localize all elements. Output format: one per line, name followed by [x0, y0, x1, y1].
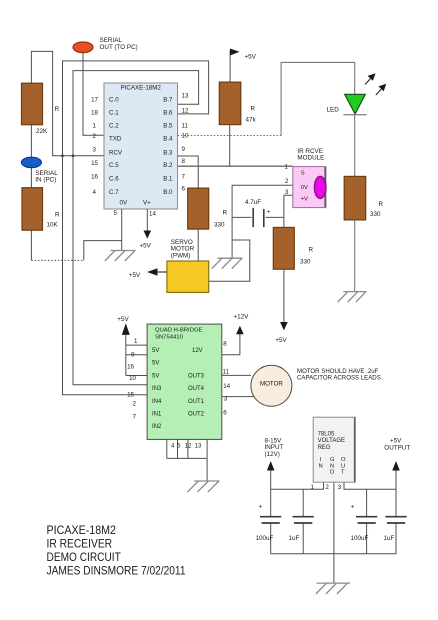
power arrow +5V (pin 14, pointing down) — [144, 231, 152, 239]
svg-text:+5V: +5V — [245, 54, 257, 61]
wire LED R330 to ground — [354, 220, 356, 292]
ground symbol (H-bridge) — [187, 481, 219, 492]
resistor R 22K — [22, 83, 43, 125]
svg-text:16: 16 — [91, 174, 98, 181]
svg-text:9: 9 — [182, 146, 186, 153]
svg-text:B.4: B.4 — [163, 135, 173, 142]
capacitor C5 1uF (output) plates — [385, 517, 406, 523]
IC U1 PICAXE-18M2 body — [104, 83, 178, 209]
junction dot on RCV net — [61, 154, 64, 157]
wire regulator GND pin 2 to ground — [333, 482, 335, 583]
svg-text:15: 15 — [91, 160, 98, 167]
svg-text:330: 330 — [214, 222, 225, 229]
svg-text:3: 3 — [93, 146, 97, 153]
IR receiver lens (magenta ellipse) — [315, 176, 326, 198]
svg-text:IN3: IN3 — [152, 386, 162, 392]
power arrow +5V (IR supply, pointing down) — [280, 322, 288, 330]
svg-text:R: R — [379, 201, 384, 208]
svg-text:TXD: TXD — [109, 135, 122, 142]
resistor R 10K — [22, 188, 43, 231]
svg-text:N: N — [330, 463, 334, 469]
svg-text:17: 17 — [91, 96, 98, 103]
junction dot on RCV net — [72, 154, 75, 157]
capacitor C1 4.7uF wires — [232, 216, 251, 218]
svg-text:0V: 0V — [301, 185, 308, 191]
wire 22K top to RCV pin 3 — [31, 51, 104, 155]
svg-text:B.6: B.6 — [163, 109, 173, 116]
svg-text:2: 2 — [325, 484, 329, 491]
svg-text:13: 13 — [182, 93, 189, 100]
wire 8-15V input rail — [270, 470, 272, 554]
wire serial ground return to 0V ground — [84, 241, 122, 261]
svg-text:10: 10 — [129, 375, 136, 382]
svg-text:LED: LED — [327, 107, 340, 114]
svg-text:PICAXE-18M2: PICAXE-18M2 — [47, 523, 117, 537]
svg-text:G: G — [330, 457, 335, 463]
svg-text:CAPACITOR ACROSS LEADS: CAPACITOR ACROSS LEADS — [297, 374, 381, 381]
svg-text:16: 16 — [127, 364, 134, 371]
svg-text:OUTPUT: OUTPUT — [384, 445, 410, 452]
svg-text:5: 5 — [114, 210, 118, 217]
wire LED cathode to R330 — [354, 115, 356, 177]
wire ground bus (regulator) — [271, 553, 396, 555]
wire +5V to H-bridge 5V pins 1,9,16 — [126, 335, 147, 376]
svg-text:2: 2 — [285, 178, 289, 185]
svg-text:REG: REG — [318, 445, 331, 451]
ground symbol (LED) — [338, 292, 367, 303]
svg-text:330: 330 — [300, 259, 311, 266]
svg-text:D: D — [330, 470, 334, 476]
svg-text:U: U — [341, 463, 345, 469]
svg-text:5: 5 — [177, 443, 181, 450]
wire IR module +V pin 3 to R330 — [284, 195, 293, 227]
svg-text:1: 1 — [311, 484, 315, 491]
svg-text:15: 15 — [127, 392, 134, 399]
power arrow 8-15V input (pointing up) — [267, 461, 275, 471]
capacitor C3 1uF (input) plates — [293, 517, 314, 523]
resistor R 330 (LED) — [344, 176, 366, 220]
pin name labels C.0 C.1 C.2 TXD RCV C.5 C.6 C.7 (U1 left) — [109, 96, 123, 196]
svg-text:2: 2 — [133, 401, 137, 408]
wire B.3 pin 9 to servo resistor — [178, 156, 199, 189]
svg-text:5V: 5V — [152, 348, 159, 354]
label IR RCVE MODULE — [297, 148, 324, 162]
svg-text:OUT4: OUT4 — [188, 386, 205, 392]
pin labels S 0V +V (IR module) — [301, 171, 308, 203]
svg-text:10: 10 — [182, 132, 189, 139]
ground symbol (0V pin 5) — [105, 251, 136, 262]
voltage regulator U3 78L05 body — [313, 417, 355, 482]
wire R330 to +5V arrow — [283, 269, 285, 322]
svg-text:R: R — [223, 210, 228, 217]
wire 100uF output branch — [366, 489, 368, 553]
wire 12V pin 8 to +12V arrow — [222, 334, 240, 355]
svg-text:B.0: B.0 — [163, 189, 173, 196]
pin labels IN GND OUT (U3, vertical) — [319, 457, 347, 476]
svg-text:RCV: RCV — [109, 149, 123, 156]
svg-text:330: 330 — [370, 211, 381, 218]
wire regulator output bus — [344, 482, 396, 489]
wire serial-out to TXD pin 2 — [83, 53, 104, 136]
power arrow +12V (pointing up) — [236, 326, 244, 335]
wire +5V to servo — [157, 271, 167, 273]
label SERIAL IN (PC) — [35, 170, 58, 184]
svg-text:+5V: +5V — [140, 242, 152, 249]
svg-text:JAMES DINSMORE 7/02/2011: JAMES DINSMORE 7/02/2011 — [47, 564, 186, 578]
svg-text:C.1: C.1 — [109, 109, 119, 116]
pin number labels 13 12 11 10 9 8 7 6 (U1 right outside) — [182, 93, 189, 193]
svg-text:OUT (TO PC): OUT (TO PC) — [100, 44, 138, 51]
svg-text:IR RECEIVER: IR RECEIVER — [47, 537, 113, 551]
svg-text:MODULE: MODULE — [297, 155, 324, 162]
wire 10K bottom down — [30, 230, 32, 260]
svg-text:B.3: B.3 — [163, 149, 173, 156]
wire 0V pin 5 to ground — [121, 209, 123, 251]
motor M1 body — [251, 365, 292, 406]
title text block — [47, 523, 186, 578]
capacitor C1 4.7uF plates — [252, 208, 254, 227]
LED light ray arrow 2 — [376, 84, 387, 95]
svg-text:13: 13 — [195, 443, 202, 450]
label SERIAL OUT (TO PC) — [100, 37, 138, 51]
svg-text:7: 7 — [133, 413, 137, 420]
svg-text:IN (PC): IN (PC) — [35, 176, 56, 183]
svg-text:+: + — [351, 504, 355, 511]
svg-text:C.5: C.5 — [109, 162, 119, 169]
svg-text:SN754410: SN754410 — [155, 334, 184, 340]
svg-text:3: 3 — [285, 189, 289, 196]
svg-text:R: R — [55, 106, 60, 113]
svg-text:+V: +V — [301, 197, 308, 203]
label QUAD H-BRIDGE SN754410 (title) — [155, 328, 203, 341]
IC U2 QUAD H-BRIDGE SN754410 body — [147, 324, 222, 439]
svg-text:MOTOR: MOTOR — [260, 380, 283, 387]
svg-text:+: + — [259, 504, 263, 511]
svg-text:78L05: 78L05 — [318, 432, 335, 438]
svg-text:+5V: +5V — [390, 437, 402, 444]
svg-text:QUAD H-BRIDGE: QUAD H-BRIDGE — [155, 328, 203, 334]
label SERVO MOTOR (PWM) — [171, 239, 195, 260]
svg-text:4: 4 — [93, 189, 97, 196]
svg-text:6: 6 — [223, 409, 227, 416]
wire B.6 pin 12 to H-bridge IN4 — [63, 61, 209, 395]
svg-text:6: 6 — [182, 186, 186, 193]
svg-text:PICAXE-18M2: PICAXE-18M2 — [121, 85, 162, 92]
svg-text:(12V): (12V) — [265, 451, 280, 458]
svg-text:R: R — [309, 247, 314, 254]
svg-text:IN4: IN4 — [152, 399, 162, 405]
svg-text:2: 2 — [93, 133, 97, 140]
LED light ray arrow 1 — [365, 73, 376, 84]
power arrow +5V (H-bridge logic supply) — [122, 323, 130, 335]
svg-text:V+: V+ — [143, 200, 151, 207]
svg-text:+: + — [267, 209, 271, 216]
svg-text:IN2: IN2 — [152, 424, 162, 430]
svg-text:100uF: 100uF — [351, 535, 369, 542]
svg-text:4: 4 — [171, 443, 175, 450]
pin number labels 8 11 14 3 6 (U2 right outside) — [223, 341, 231, 417]
svg-text:12V: 12V — [192, 348, 203, 354]
pin labels 0V and V+ (U1 bottom inside) — [120, 200, 152, 207]
svg-text:B.2: B.2 — [163, 162, 173, 169]
svg-text:O: O — [341, 457, 346, 463]
resistor R 330 (servo) — [188, 188, 209, 229]
svg-text:+5V: +5V — [275, 337, 287, 344]
wire IR module 0V pin 2 to ground — [232, 185, 293, 258]
wire ground bus to ground symbol — [206, 458, 208, 481]
svg-text:14: 14 — [223, 383, 230, 390]
svg-text:1: 1 — [93, 122, 97, 129]
svg-text:100uF: 100uF — [256, 535, 274, 542]
svg-text:+5V: +5V — [117, 316, 129, 323]
svg-text:B.5: B.5 — [163, 122, 173, 129]
LED cathode bar — [343, 114, 366, 116]
svg-text:B.1: B.1 — [163, 176, 173, 183]
svg-text:OUT3: OUT3 — [188, 373, 205, 379]
svg-text:1uF: 1uF — [289, 535, 300, 542]
ground symbol (regulator) — [316, 583, 350, 594]
label 78L05 VOLTAGE REG — [318, 432, 345, 451]
svg-text:5V: 5V — [152, 361, 159, 367]
svg-text:47k: 47k — [246, 117, 257, 124]
wire B.4 pin 10 dashed segment — [178, 135, 282, 137]
label +5V OUTPUT — [384, 437, 410, 451]
svg-text:DEMO CIRCUIT: DEMO CIRCUIT — [47, 550, 121, 564]
svg-text:OUT1: OUT1 — [188, 399, 205, 405]
wire 22K bottom to serial-in node — [30, 125, 32, 158]
ground symbol (IR module / cap) — [212, 258, 243, 269]
pin name labels 5V 5V 5V IN3 IN4 IN1 IN2 (U2 left) — [152, 348, 162, 430]
connector serial out (to PC) — [73, 42, 93, 53]
resistor R 330 (IR supply) — [273, 227, 294, 269]
svg-text:3: 3 — [338, 484, 342, 491]
wire B.7 pin 13 to H-bridge IN3 — [73, 71, 199, 385]
capacitor C2 100uF (input) plates — [260, 517, 281, 523]
capacitor C4 100uF (output) plates — [356, 517, 377, 523]
wire +5V flag pole to R47k — [229, 50, 231, 83]
wire OUT1 pin 3 to motor — [222, 396, 254, 398]
LED D1 body — [345, 94, 366, 114]
svg-text:1: 1 — [134, 338, 138, 345]
svg-text:IN1: IN1 — [152, 412, 162, 418]
svg-text:5V: 5V — [152, 373, 159, 379]
wire servo R330 to servo — [197, 229, 199, 261]
power arrow +5V (servo, pointing left) — [147, 268, 158, 276]
svg-text:N: N — [319, 463, 323, 469]
wire U2 ground pins 4 5 12 13 to bus — [167, 439, 207, 458]
svg-text:14: 14 — [149, 211, 156, 218]
svg-text:+12V: +12V — [234, 314, 250, 321]
wire B.4 net up and over to LED anode — [281, 62, 355, 135]
svg-text:18: 18 — [91, 109, 98, 116]
wire B.2 pin 8 to IR module pin 1 — [178, 165, 293, 167]
svg-text:R: R — [55, 212, 60, 219]
pin name labels 12V OUT3 OUT4 OUT1 OUT2 (U2 right) — [188, 348, 205, 418]
pin number labels 1 9 16 10 15 2 7 (U2 left outside) — [127, 338, 138, 420]
pin number labels 4 5 12 13 (U2 bottom) — [171, 443, 202, 450]
wire serial-in node to 10K top — [30, 168, 32, 188]
resistor R 47k — [219, 82, 241, 125]
svg-text:OUT2: OUT2 — [188, 412, 205, 418]
svg-text:8: 8 — [223, 341, 227, 348]
svg-text:4.7uF: 4.7uF — [245, 199, 261, 206]
pin name labels B.7 B.6 B.5 B.4 B.3 B.2 B.1 B.0 (U1 right) — [163, 96, 173, 196]
svg-text:C.7: C.7 — [109, 189, 119, 196]
wire serial ground return (dotted) — [31, 259, 83, 261]
svg-text:12: 12 — [185, 443, 192, 450]
svg-text:1: 1 — [285, 163, 289, 170]
label 8-15V INPUT (12V) — [265, 437, 284, 458]
svg-text:10K: 10K — [47, 221, 59, 228]
wire V+ pin 14 stub — [146, 209, 148, 231]
svg-text:T: T — [341, 470, 345, 476]
svg-text:+5V: +5V — [129, 272, 141, 279]
wire regulator input bus — [271, 482, 324, 489]
svg-text:SERIAL: SERIAL — [100, 37, 123, 44]
IR receiver module body — [293, 167, 326, 208]
wire R47k bottom to B.2 net — [229, 125, 231, 166]
wire +5V output rail — [395, 470, 397, 554]
svg-text:C.0: C.0 — [109, 96, 119, 103]
svg-text:0V: 0V — [120, 200, 128, 207]
svg-text:B.7: B.7 — [163, 96, 173, 103]
svg-text:12: 12 — [182, 108, 189, 115]
svg-text:VOLTAGE: VOLTAGE — [318, 438, 345, 444]
wire servo ground branch — [209, 240, 250, 281]
svg-text:R: R — [251, 106, 256, 113]
svg-text:8: 8 — [182, 158, 186, 165]
power arrow +5V output (pointing up) — [392, 461, 400, 471]
connector serial in (PC) — [21, 157, 41, 167]
wire 1uF input branch — [302, 489, 304, 553]
svg-text:S: S — [301, 171, 305, 177]
wire OUT3 pin 11 to motor — [222, 374, 251, 376]
svg-text:7: 7 — [182, 173, 186, 180]
pin number labels 17 18 1 2 3 15 16 4 (U1 left outside) — [91, 96, 98, 196]
servo motor body — [167, 261, 209, 292]
note text MOTOR SHOULD HAVE .2uF CAPACITOR ACROSS LEADS — [297, 368, 381, 382]
svg-text:11: 11 — [223, 369, 230, 376]
svg-text:C.6: C.6 — [109, 176, 119, 183]
power flag +5V (top of 47k) — [230, 49, 240, 56]
svg-text:9: 9 — [131, 352, 135, 359]
svg-text:1uF: 1uF — [384, 535, 395, 542]
svg-text:C.2: C.2 — [109, 122, 119, 129]
svg-text:(PWM): (PWM) — [171, 252, 191, 259]
svg-text:22K: 22K — [36, 128, 48, 135]
svg-text:11: 11 — [182, 123, 189, 130]
